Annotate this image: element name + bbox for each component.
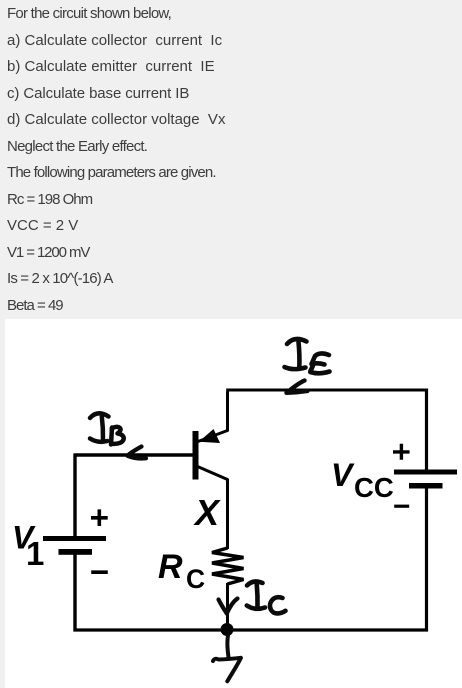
svg-text:CC: CC	[354, 472, 394, 503]
current label IE handwritten	[285, 339, 330, 373]
minus sign V1	[91, 570, 108, 574]
plus sign VCC	[393, 444, 410, 460]
label VCC	[331, 457, 394, 503]
wire left upper (base wire to V1 +)	[73, 454, 76, 537]
wire collector vertical	[226, 479, 229, 550]
wire bottom rail	[74, 628, 429, 631]
wire left lower (V1 - to bottom rail)	[73, 553, 76, 632]
svg-text:1: 1	[26, 535, 44, 572]
label RC	[158, 548, 205, 594]
wire right upper (top rail to Vcc +)	[425, 389, 428, 472]
battery VCC	[394, 470, 457, 489]
current arrow IE handwritten	[287, 381, 308, 393]
transistor Q1 PNP	[193, 429, 228, 480]
current label IB handwritten	[90, 413, 124, 444]
battery V1	[43, 536, 106, 555]
svg-text:X: X	[193, 492, 221, 533]
wire emitter vertical	[226, 392, 229, 432]
plus sign V1	[91, 509, 108, 526]
wire top rail (emitter to Vcc)	[226, 389, 428, 392]
minus sign VCC	[394, 505, 409, 508]
wire right lower (Vcc - to bottom rail)	[425, 486, 428, 632]
svg-text:C: C	[186, 564, 205, 594]
wire resistor to node	[226, 583, 229, 630]
label V1	[12, 520, 44, 573]
current arrow IC handwritten	[219, 599, 238, 614]
wire base (V1 to transistor base)	[74, 453, 194, 456]
svg-text:V: V	[331, 457, 355, 493]
current label IC handwritten	[247, 581, 286, 613]
resistor RC	[212, 548, 244, 584]
junction node dot	[221, 623, 234, 636]
ground	[213, 636, 241, 682]
svg-text:R: R	[158, 548, 183, 586]
current arrow IB handwritten	[128, 447, 147, 459]
